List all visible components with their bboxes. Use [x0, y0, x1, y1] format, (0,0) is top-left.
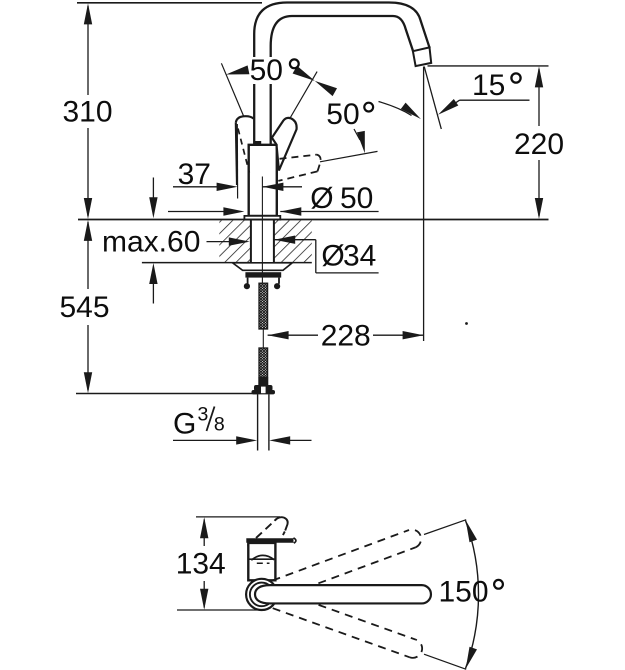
centerline — [261, 177, 263, 284]
15deg leader arrow — [438, 99, 458, 115]
svg-text:228: 228 — [321, 320, 371, 353]
left lever hidden edge (dashed) — [238, 129, 249, 173]
top view lever plate — [246, 538, 293, 542]
top view bearing inner circle — [250, 583, 274, 607]
top view extension line upper — [196, 516, 280, 518]
angle 50-1 left arrow — [226, 65, 249, 74]
spout outer edge / riser left — [253, 84, 255, 145]
swivel arc arrow lower — [466, 647, 477, 669]
svg-text:Ø: Ø — [310, 182, 333, 215]
svg-text:G: G — [173, 407, 196, 440]
left lever (ghost position) edge — [236, 122, 237, 185]
dimension 220 line — [538, 69, 540, 126]
dimension 220 arrows — [535, 66, 543, 87]
dashed lever end cap — [317, 155, 321, 172]
left lever cap — [236, 116, 254, 122]
dimension 37 arrows — [217, 183, 238, 191]
top view knob underside arc — [251, 555, 274, 560]
angle 50-2 down leader — [354, 129, 360, 140]
stray speck — [465, 322, 468, 325]
braided supply hose upper — [259, 283, 268, 329]
angle 50-1 right arrow (bowtie) — [293, 66, 315, 81]
angle 50-2 arc — [379, 102, 412, 116]
svg-text:220: 220 — [514, 128, 564, 161]
dimension dia34 leader — [274, 239, 316, 241]
svg-text:545: 545 — [60, 291, 110, 324]
counter hatch right block — [274, 220, 312, 262]
hose gap centerline — [262, 329, 264, 348]
angle 50-2 arc arrow — [401, 103, 421, 119]
G3/8 arrows — [236, 436, 257, 444]
svg-text:50: 50 — [326, 98, 359, 131]
swivel radial line lower — [424, 654, 466, 669]
dimension 37 extension line — [236, 124, 238, 199]
svg-text:8: 8 — [214, 414, 225, 436]
hose end nut — [254, 385, 273, 391]
svg-text:34: 34 — [343, 239, 376, 272]
svg-text:37: 37 — [178, 158, 211, 191]
top view lever plate tip — [294, 538, 296, 543]
max.60 leader arrow — [229, 237, 250, 245]
angle 50-2 down arrow — [357, 131, 365, 153]
swivel 150deg arc — [466, 521, 479, 669]
svg-text:Ø: Ø — [321, 239, 344, 272]
dimension 134 arrows — [200, 517, 208, 538]
swivel radial line upper — [424, 520, 466, 535]
svg-text:50: 50 — [250, 54, 283, 87]
spreading washer — [233, 263, 293, 271]
worktop deck line — [78, 219, 549, 221]
G3/8 dimension line — [173, 439, 238, 441]
angle 50-1 left axis line — [221, 63, 244, 117]
hose collar — [258, 378, 268, 386]
15deg slanted line — [424, 67, 441, 130]
top view short dashed line — [257, 562, 270, 564]
top view lever knob left edge (dashed) — [256, 519, 277, 538]
dashed lever (full open) top edge — [280, 155, 317, 159]
svg-text:310: 310 — [63, 96, 113, 129]
top view bearing outer circle — [246, 579, 277, 610]
dashed swivel arm upper — [279, 547, 416, 598]
545 bottom reference line — [76, 393, 258, 395]
svg-text:max.60: max.60 — [102, 226, 200, 259]
threaded shank — [250, 220, 252, 263]
dimension dia34 arrow — [274, 236, 295, 244]
dimension 545 line — [87, 222, 89, 289]
counter bottom line — [142, 262, 251, 264]
dimension 545 arrows — [84, 220, 92, 241]
connection pipe — [257, 394, 259, 450]
top view lever knob base hook — [248, 540, 253, 549]
dimension 228 arrows — [268, 331, 289, 339]
top view cartridge line — [249, 558, 276, 560]
svg-text:150: 150 — [439, 576, 489, 609]
top reference line (310 datum) — [77, 2, 262, 4]
mounting nut — [245, 272, 281, 277]
top view extension line lower — [177, 609, 265, 611]
svg-text:15: 15 — [472, 69, 505, 102]
15deg leader — [460, 99, 530, 101]
svg-text:3: 3 — [198, 403, 209, 425]
top view lever knob tip — [275, 517, 288, 530]
spout aerator tip — [413, 47, 431, 66]
top view spout arm — [255, 585, 431, 603]
dimension 310 line — [87, 6, 89, 95]
base flange — [244, 216, 280, 220]
counter thickness arrows — [152, 178, 154, 199]
top view lever knob right edge (dashed) — [282, 532, 285, 537]
faucet body — [249, 145, 277, 216]
dashed lever axis reference line — [320, 151, 378, 161]
G3/8 slash — [207, 407, 215, 432]
dashed lever bottom edge — [278, 171, 317, 181]
dimension 134 line — [203, 520, 205, 547]
angle 50-1 right axis line — [290, 72, 318, 119]
mounting bracket — [247, 278, 249, 284]
dimension 228 line — [268, 334, 318, 336]
dimension 310 arrows — [84, 3, 92, 24]
svg-text:134: 134 — [176, 547, 226, 580]
max.60 leader — [207, 241, 231, 243]
dimension dia50 arrows — [223, 207, 244, 215]
spout inner edge / riser right — [270, 84, 272, 145]
svg-text:50: 50 — [340, 182, 373, 215]
bracket foot right — [274, 283, 280, 289]
bracket foot left — [244, 283, 250, 289]
swivel arc arrow upper — [466, 520, 477, 542]
220 top reference line — [428, 65, 549, 67]
right lever (open 40deg) — [272, 118, 297, 171]
15deg vertical line from spout tip — [423, 67, 425, 342]
cartridge tab on body top — [254, 141, 261, 145]
dashed swivel arm lower — [273, 608, 410, 657]
braided supply hose lower — [259, 348, 268, 378]
top view body — [248, 543, 275, 580]
counter hatch left block — [219, 220, 251, 262]
dimension 37 line — [173, 186, 218, 188]
dimension dia50 line — [168, 211, 225, 213]
